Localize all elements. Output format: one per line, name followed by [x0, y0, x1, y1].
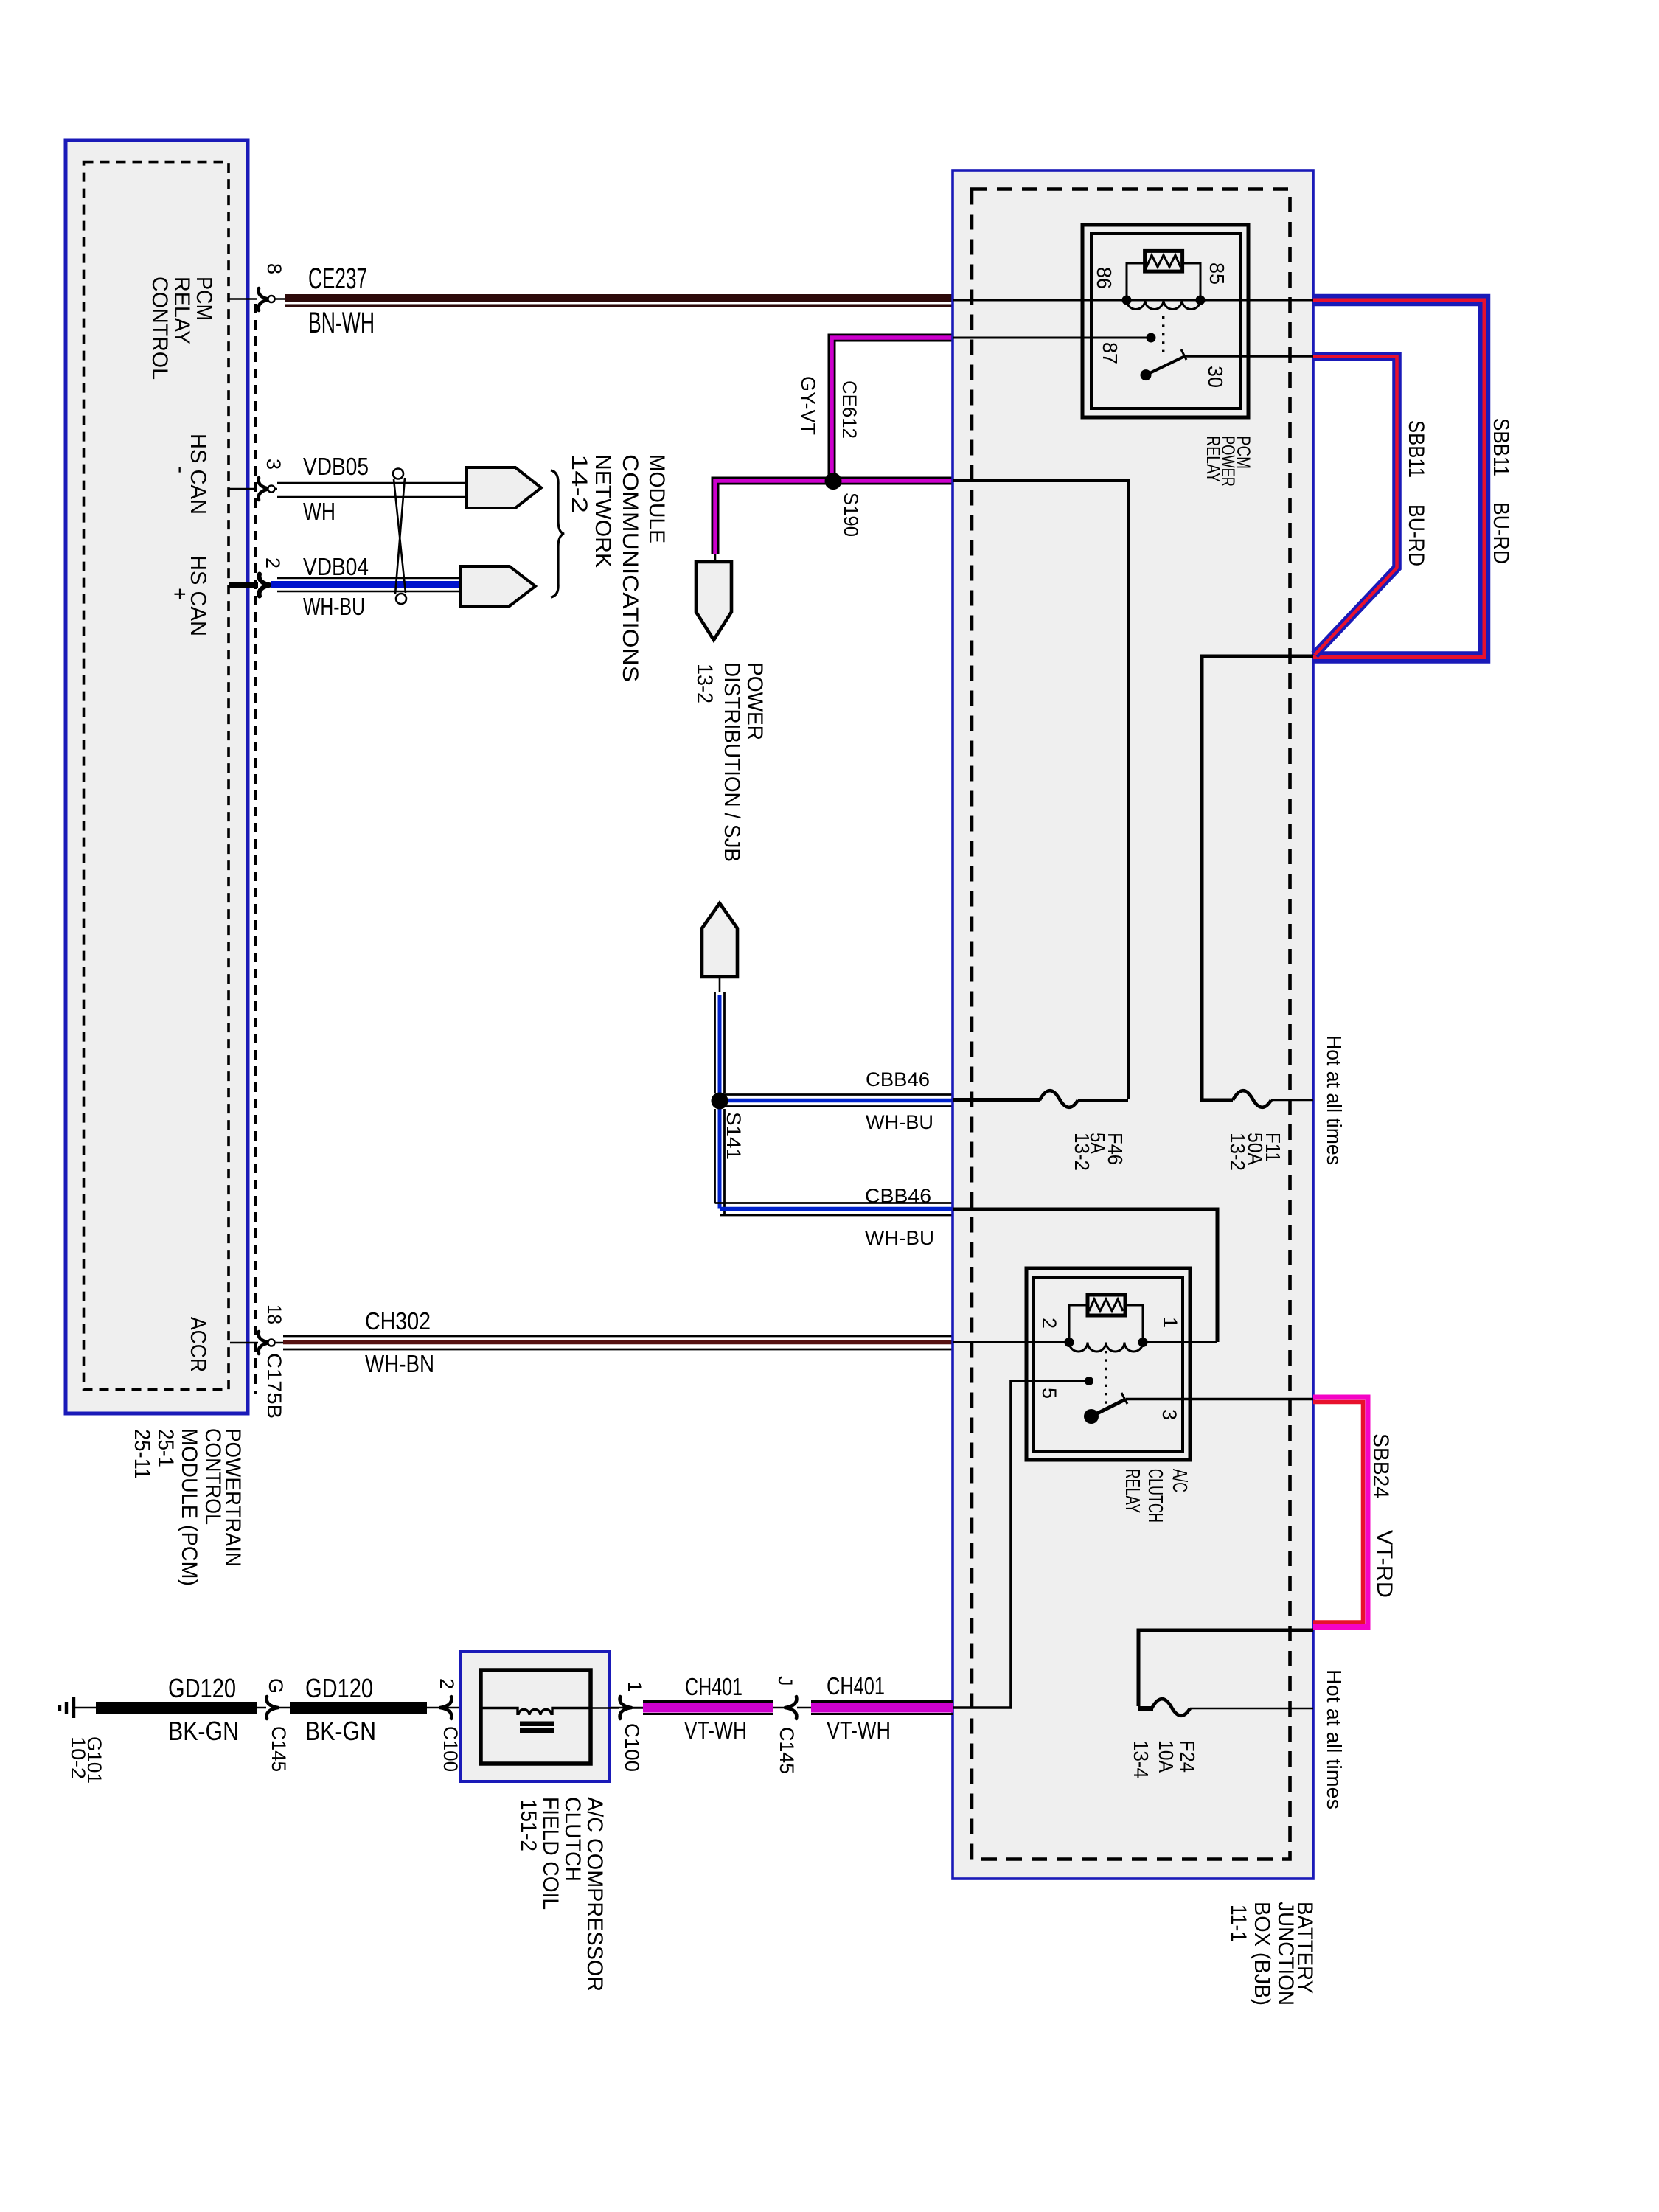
PCM power relay inner box [1091, 234, 1240, 408]
svg-text:BN-WH: BN-WH [308, 307, 375, 339]
fuse F24 10A [1152, 1699, 1190, 1716]
wire CH401 VT-WH (coil to C145) [643, 1702, 773, 1714]
wire VDB05 WH (twisted pair upper) [277, 483, 467, 497]
connector C100 link [427, 1707, 643, 1709]
svg-text:MODULE (PCM): MODULE (PCM) [177, 1428, 201, 1586]
svg-text:CLUTCH: CLUTCH [1144, 1469, 1167, 1523]
wire BJB entry to relay coil (pin 86/85 line) [953, 299, 1313, 302]
off-page flag from POWER DISTRIBUTION (up) [702, 903, 737, 977]
svg-text:NETWORK: NETWORK [591, 454, 615, 568]
connector C145 arrow (J) pointing left [773, 1707, 811, 1709]
svg-text:POWER: POWER [742, 662, 767, 740]
fuse F46 5A [1040, 1091, 1078, 1107]
svg-text:A/C: A/C [1169, 1469, 1192, 1492]
svg-text:Hot at all times: Hot at all times [1323, 1035, 1346, 1165]
svg-text:13-2: 13-2 [1226, 1133, 1249, 1171]
svg-text:VT-WH: VT-WH [827, 1717, 891, 1744]
svg-text:5: 5 [1038, 1388, 1060, 1399]
pin 18 arrow [259, 1332, 270, 1354]
A/C clutch relay armature [1084, 1409, 1099, 1424]
splice S190 [825, 473, 842, 490]
A/C clutch relay pin 5 contact [1085, 1377, 1093, 1385]
svg-text:WH-BU: WH-BU [303, 593, 365, 620]
A/C clutch relay coil [1069, 1305, 1143, 1352]
field coil winding [481, 1708, 591, 1716]
svg-text:CE612: CE612 [838, 380, 860, 439]
svg-text:3: 3 [1158, 1409, 1180, 1420]
wire GD120 BK-GN (second) [290, 1702, 427, 1714]
PCM power relay pin 87 contact [1147, 333, 1156, 343]
svg-text:CH401: CH401 [685, 1673, 742, 1700]
wire A/C relay pin 5 to CH401 [953, 1381, 1089, 1708]
svg-text:BU-RD: BU-RD [1489, 502, 1513, 564]
svg-text:S190: S190 [840, 493, 862, 537]
svg-text:C100: C100 [439, 1726, 462, 1772]
PCM power relay resistor [1145, 251, 1183, 271]
wire relay pin 87 line [953, 337, 1151, 339]
wire CE612 GY-VT (S190 to relay pin 87) [832, 338, 953, 481]
svg-text:10A: 10A [1155, 1740, 1178, 1773]
wire S190 to power distribution flag [715, 481, 833, 562]
wire A/C relay pin 3 line [1126, 1398, 1313, 1401]
pin 3 stub [229, 488, 277, 490]
svg-text:85: 85 [1206, 262, 1228, 285]
svg-text:25-11: 25-11 [130, 1429, 154, 1479]
wire CBB46 WH-BU (upper run S141 to BJB) [720, 1095, 953, 1107]
svg-text:2: 2 [262, 557, 284, 568]
svg-text:30: 30 [1204, 366, 1227, 388]
svg-text:2: 2 [1038, 1318, 1060, 1329]
connector C145 arrow (G) [267, 1697, 278, 1719]
label SBB11 BU-RD (outer) [1489, 418, 1513, 564]
svg-text:FIELD COIL: FIELD COIL [538, 1797, 563, 1910]
svg-text:VDB05: VDB05 [303, 453, 369, 480]
svg-text:BU-RD: BU-RD [1404, 504, 1428, 566]
svg-text:S141: S141 [723, 1112, 745, 1160]
svg-text:13-2: 13-2 [692, 664, 717, 703]
PCM power relay coil [1127, 263, 1200, 309]
PCM power relay armature [1141, 369, 1152, 380]
wire F46 feed (S190 line into BJB) [953, 481, 1128, 1099]
wire CBB46 into F46 [953, 1098, 1040, 1102]
wire A/C relay coil right to vertical [1143, 1341, 1217, 1343]
svg-text:BOX (BJB): BOX (BJB) [1250, 1902, 1274, 2006]
svg-text:CBB46: CBB46 [865, 1185, 931, 1207]
wire S141 down leg (WH-BU vertical) [715, 1109, 725, 1215]
svg-text:ACCR: ACCR [186, 1317, 210, 1372]
wire S190 to BJB (to fuse F46 feed) [833, 477, 953, 485]
svg-text:CBB46: CBB46 [866, 1068, 930, 1091]
svg-text:SBB11: SBB11 [1404, 420, 1428, 478]
svg-text:SBB24: SBB24 [1368, 1433, 1393, 1498]
wire CE237 BN-WH (PCM pin 8 to BJB) [285, 294, 953, 307]
wire SBB24 VT-RD loop [1313, 1397, 1368, 1627]
svg-text:J: J [774, 1676, 796, 1686]
svg-text:CONTROL: CONTROL [201, 1428, 225, 1525]
svg-text:13-2: 13-2 [1071, 1133, 1093, 1171]
label POWERTRAIN CONTROL MODULE (PCM) 25-1 25-11 [130, 1428, 245, 1586]
twisted pair crossover symbol [393, 469, 406, 605]
wire CH302 into A/C relay coil pin 2 [953, 1341, 1069, 1343]
PCM module U1 box [66, 140, 248, 1413]
connector C175B dashed line [254, 304, 257, 1394]
svg-text:CONTROL: CONTROL [147, 276, 172, 380]
svg-text:BK-GN: BK-GN [168, 1716, 239, 1746]
A/C clutch relay switch dotted link [1105, 1351, 1107, 1407]
svg-text:C100: C100 [621, 1723, 643, 1772]
wire VDB04 WH-BU (twisted pair lower) [271, 578, 461, 591]
svg-text:VDB04: VDB04 [303, 553, 369, 580]
A/C compressor clutch field coil box [461, 1652, 609, 1781]
label F46 5A 13-2 [1071, 1133, 1127, 1171]
connector C145 G link [257, 1707, 290, 1709]
wire relay pin 30 line [1185, 355, 1313, 358]
wire SBB11 BU-RD outer loop [1313, 300, 1484, 658]
svg-text:VT-WH: VT-WH [684, 1717, 747, 1744]
svg-text:CH401: CH401 [827, 1672, 885, 1700]
svg-text:WH: WH [303, 498, 335, 525]
svg-text:14-2: 14-2 [567, 454, 591, 513]
svg-text:+: + [167, 588, 192, 601]
svg-text:Hot at all times: Hot at all times [1323, 1669, 1346, 1809]
pin 8 arrow [259, 288, 270, 310]
svg-text:C145: C145 [776, 1727, 798, 1774]
wire CH401 VT-WH (C145 to BJB) [811, 1702, 953, 1714]
pin 18 stub [230, 1342, 283, 1344]
wire flag to S141 (WH-BU vertical) [715, 977, 725, 1093]
wire SBB11 BU-RD inner loop [1313, 357, 1397, 655]
A/C clutch relay resistor [1088, 1295, 1125, 1315]
connector C100 arrow (1) pointing right [591, 1707, 643, 1709]
svg-text:GD120: GD120 [305, 1673, 373, 1703]
svg-text:PCM: PCM [192, 276, 216, 321]
wire CBB46 lower into BJB to A/C relay pin 1 [953, 1209, 1217, 1342]
label A/C CLUTCH RELAY [1121, 1469, 1192, 1523]
svg-text:CLUTCH: CLUTCH [560, 1797, 585, 1882]
svg-text:25-1: 25-1 [153, 1429, 178, 1467]
svg-text:10-2: 10-2 [67, 1736, 89, 1779]
pin 2 stub [229, 582, 258, 588]
label BATTERY JUNCTION BOX (BJB) 11-1 [1226, 1902, 1317, 2006]
svg-text:GD120: GD120 [168, 1673, 236, 1703]
wire SBB24 bottom to F24 [1138, 1630, 1313, 1706]
svg-text:WH-BU: WH-BU [866, 1111, 933, 1133]
BJB internal dashed boundary [972, 189, 1290, 1860]
svg-text:8: 8 [263, 263, 285, 274]
pin 3 arrow [259, 478, 270, 500]
off-page flag connector (VDB04) [461, 566, 535, 606]
svg-text:MODULE: MODULE [644, 454, 669, 543]
svg-text:WH-BU: WH-BU [865, 1227, 934, 1249]
svg-text:DISTRIBUTION / SJB: DISTRIBUTION / SJB [720, 662, 744, 862]
svg-text:3: 3 [262, 459, 285, 470]
svg-text:RELAY: RELAY [1121, 1469, 1144, 1513]
wire F11 to SBB11 bottom [1202, 656, 1313, 1100]
label F11 50A 13-2 [1226, 1133, 1284, 1171]
svg-text:VT-RD: VT-RD [1372, 1530, 1397, 1598]
svg-text:COMMUNICATIONS: COMMUNICATIONS [618, 454, 642, 682]
field coil core bars [520, 1722, 554, 1727]
svg-text:A/C COMPRESSOR: A/C COMPRESSOR [582, 1797, 607, 1992]
svg-text:WH-BN: WH-BN [365, 1350, 434, 1377]
pin 8 stub [229, 298, 285, 300]
PCM internal dashed boundary [84, 162, 229, 1390]
svg-text:HS CAN: HS CAN [186, 434, 210, 515]
splice S141 [712, 1093, 728, 1110]
fuse F11 50A [1233, 1091, 1271, 1107]
svg-text:1: 1 [624, 1681, 646, 1692]
svg-text:86: 86 [1093, 267, 1116, 289]
label HS CAN + [167, 555, 210, 636]
svg-text:GY-VT: GY-VT [797, 376, 819, 435]
svg-text:CH302: CH302 [365, 1307, 431, 1335]
svg-text:BK-GN: BK-GN [305, 1716, 376, 1746]
brace for module communications network [551, 470, 564, 597]
svg-text:CE237: CE237 [308, 262, 367, 295]
svg-text:87: 87 [1099, 342, 1121, 364]
label F24 10A 13-4 [1130, 1740, 1199, 1778]
svg-text:C145: C145 [268, 1726, 290, 1772]
svg-text:RELAY: RELAY [170, 276, 194, 344]
label PCM POWER RELAY [1203, 436, 1253, 487]
PCM power relay K1 outer box [1082, 225, 1248, 417]
svg-text:F24: F24 [1176, 1740, 1199, 1773]
pin 2 arrow [260, 574, 271, 597]
label MODULE COMMUNICATIONS NETWORK 14-2 [567, 454, 669, 682]
label A/C COMPRESSOR CLUTCH FIELD COIL 151-2 [516, 1797, 607, 1992]
wire CH302 WH-BN (pin 18 to A/C clutch relay) [283, 1336, 953, 1349]
label PCM RELAY CONTROL [147, 276, 216, 380]
svg-text:1: 1 [1159, 1317, 1181, 1328]
ground G101 [60, 1697, 97, 1718]
svg-text:13-4: 13-4 [1130, 1740, 1152, 1778]
A/C clutch relay K2 outer box [1026, 1268, 1190, 1460]
svg-text:-: - [169, 466, 193, 473]
label HS CAN - [169, 434, 210, 515]
svg-text:C175B: C175B [263, 1353, 285, 1419]
off-page flag to POWER DISTRIBUTION (down) [696, 562, 731, 640]
svg-text:RELAY: RELAY [1203, 436, 1223, 482]
svg-text:2: 2 [436, 1678, 458, 1689]
svg-text:SBB11: SBB11 [1489, 418, 1513, 476]
wire CBB46 WH-BU (lower run to BJB) [715, 1203, 953, 1216]
svg-text:151-2: 151-2 [516, 1799, 540, 1851]
field coil inner box [481, 1670, 591, 1764]
connector C100 arrow (2) pointing left [440, 1697, 451, 1719]
svg-text:11-1: 11-1 [1226, 1905, 1251, 1942]
PCM power relay switch dotted link [1162, 316, 1164, 355]
off-page flag connector (VDB05) [467, 467, 541, 508]
label SBB11 BU-RD (inner) [1404, 420, 1428, 566]
label G101 10-2 [67, 1736, 105, 1784]
label POWER DISTRIBUTION / SJB 13-2 [692, 662, 767, 862]
svg-text:18: 18 [263, 1304, 285, 1324]
wire GD120 BK-GN (ground side) [96, 1702, 257, 1714]
svg-text:JUNCTION: JUNCTION [1273, 1902, 1298, 2006]
A/C clutch relay inner box [1034, 1278, 1183, 1452]
svg-text:G: G [265, 1678, 287, 1694]
BATTERY JUNCTION BOX outline [953, 170, 1313, 1879]
